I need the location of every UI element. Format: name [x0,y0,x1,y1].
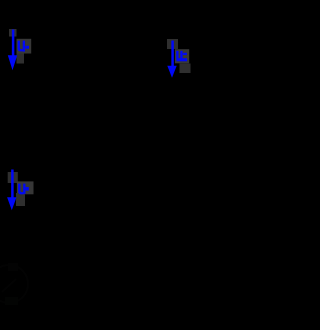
label box (black component label) below u1 [17,54,25,64]
label box (black component label) near node B top-right [167,39,178,49]
voltage label u2 text [176,51,187,62]
source label patch 2 (very faint) [5,297,18,305]
voltage arrow u2 (points down, top-right) [167,41,176,78]
voltage arrow u3 (points down, mid-left) [7,170,16,211]
voltage source symbol (very faint, bottom-left) [0,265,28,303]
label box (black component label) below u2 [180,64,191,74]
source label patch (very faint) [8,263,18,271]
voltage label u3 text [18,184,29,195]
label box behind voltage label u2 [175,49,189,63]
label box behind voltage label u1 [17,39,32,54]
label box (black component label) near node C mid-left [8,172,18,183]
label box (black component label) below u3 [16,193,25,206]
label box behind voltage label u3 [17,181,34,194]
label box (black component label) near node A top-left [9,29,17,37]
voltage arrow u1 (points down, top-left) [8,30,17,71]
voltage label u1 text [18,41,29,52]
